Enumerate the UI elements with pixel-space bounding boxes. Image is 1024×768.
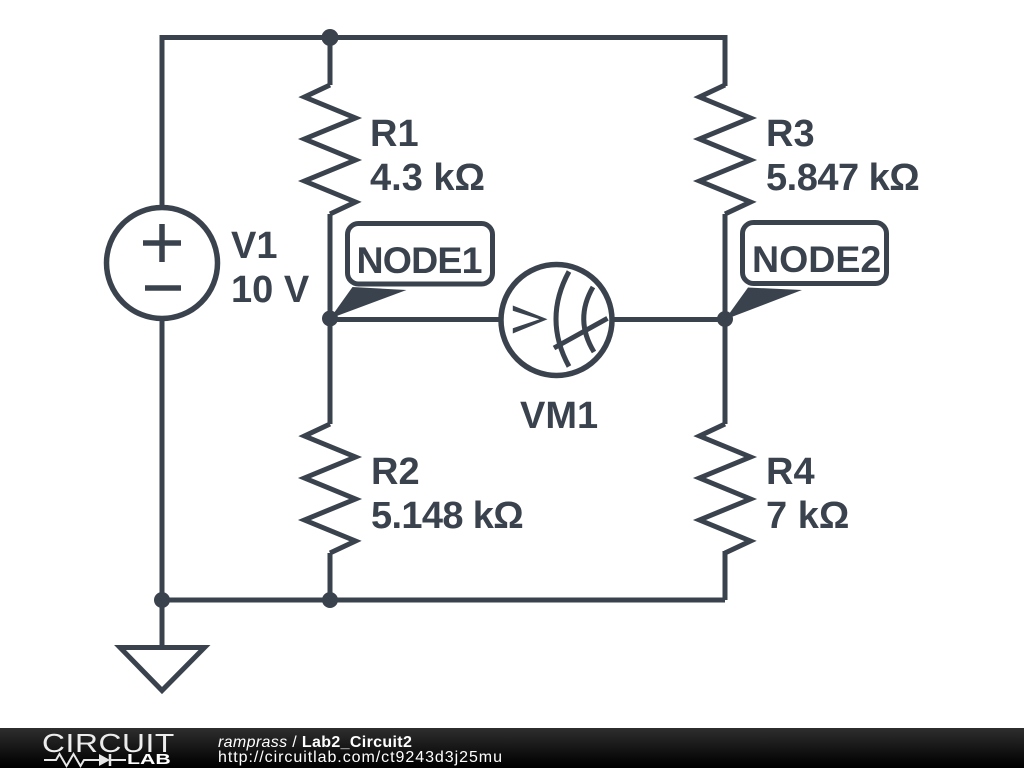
- svg-text:V1: V1: [231, 225, 277, 267]
- node NODE1 junction dot: [322, 311, 338, 327]
- CircuitLab logo LAB text: [127, 752, 171, 767]
- ground rail junction dot at ground tap: [154, 592, 170, 608]
- ground: [120, 600, 205, 691]
- svg-text:5.847 kΩ: 5.847 kΩ: [766, 157, 919, 199]
- voltage source V1: [107, 208, 218, 319]
- wire bottom rail to R4 bottom: [723, 551, 728, 600]
- svg-text:7 kΩ: 7 kΩ: [766, 495, 849, 537]
- resistor R2: [305, 319, 356, 600]
- footer url: [218, 750, 503, 766]
- svg-text:R4: R4: [766, 451, 815, 493]
- footer bar: [0, 728, 1024, 768]
- svg-text:10 V: 10 V: [231, 269, 310, 311]
- node NODE2 box: [743, 223, 887, 284]
- node NODE2 flag pointer: [725, 288, 802, 320]
- resistor R1: [305, 38, 356, 320]
- junction dot bottom rail / R2: [322, 592, 338, 608]
- CircuitLab logo wordmark: [42, 730, 175, 756]
- node NODE2 junction dot: [717, 311, 733, 327]
- wire NODE1 to voltmeter left terminal: [330, 317, 503, 322]
- svg-text:R1: R1: [370, 113, 419, 155]
- svg-text:R3: R3: [766, 113, 815, 155]
- svg-text:5.148 kΩ: 5.148 kΩ: [371, 495, 523, 537]
- node NODE1 flag pointer: [330, 287, 407, 319]
- node junction dot top rail / R1: [322, 29, 339, 46]
- wire V1 bottom to ground rail: [160, 318, 165, 600]
- footer title: ramprass / Lab2_Circuit2: [218, 735, 412, 751]
- CircuitLab logo resistor-diode glyph: [42, 752, 132, 768]
- resistor R3: [700, 85, 751, 319]
- svg-text:NODE1: NODE1: [357, 239, 482, 281]
- voltmeter VM1: [501, 265, 612, 376]
- node NODE1 box: [348, 224, 493, 285]
- wire top run: V1 top to top rail to R3 column: [162, 38, 725, 209]
- wire bottom rail: [162, 598, 725, 603]
- svg-text:R2: R2: [371, 451, 420, 493]
- wire voltmeter right terminal to NODE2: [610, 317, 725, 322]
- svg-text:NODE2: NODE2: [752, 238, 881, 280]
- svg-text:4.3 kΩ: 4.3 kΩ: [370, 157, 485, 199]
- svg-text:VM1: VM1: [520, 395, 598, 437]
- resistor R4: [700, 319, 751, 553]
